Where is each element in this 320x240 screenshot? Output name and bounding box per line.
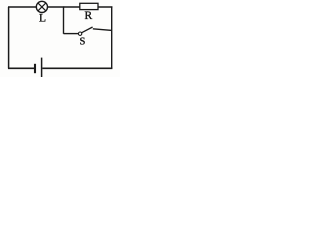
wire: lamp to junction node — [48, 6, 65, 8]
wire: junction to resistor — [64, 6, 80, 8]
resistor R — [80, 3, 98, 22]
svg-text:L: L — [39, 13, 46, 25]
svg-text:S: S — [80, 37, 86, 48]
wire: battery to bottom-right corner — [42, 67, 112, 69]
wire: top-left segment to lamp — [8, 6, 36, 8]
wire: bottom-left segment to battery — [8, 67, 34, 69]
lamp L — [36, 1, 47, 24]
svg-text:R: R — [85, 10, 93, 22]
wire: left vertical — [8, 7, 10, 68]
wire: branch vertical from junction down to switch level — [63, 7, 65, 34]
wire: switch branch right segment — [93, 29, 112, 31]
battery — [35, 58, 42, 77]
wire: right vertical — [111, 6, 113, 68]
switch S — [78, 27, 92, 48]
wire: resistor to right vertical — [98, 6, 112, 8]
wire: switch branch left segment — [64, 33, 79, 35]
